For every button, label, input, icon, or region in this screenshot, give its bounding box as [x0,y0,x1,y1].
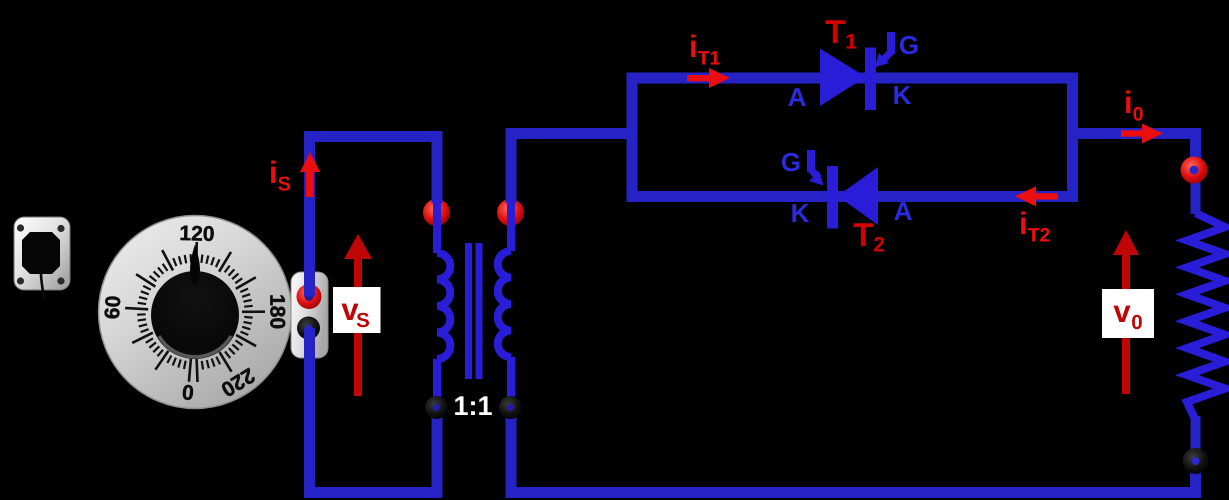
terminal block [291,272,328,358]
wire: secondary bottom to load bottom [511,404,1196,493]
svg-text:60: 60 [101,295,125,320]
node: source black terminal [297,317,320,340]
wire: thyristor block right vertical [1067,78,1078,197]
svg-text:S: S [356,309,370,332]
node: load red terminal [1181,157,1208,184]
current arrow i_S [300,152,320,197]
dial knob [151,271,239,359]
wall outlet [14,217,70,299]
variac dial body [99,216,292,409]
node: load black terminal [1183,448,1209,474]
transformer secondary winding [498,200,511,410]
label box v_S [333,287,381,333]
wire: load bottom connection [1191,416,1201,462]
transformer primary winding [437,200,450,410]
svg-text:180: 180 [265,294,288,329]
node: transformer primary bottom terminal [425,396,448,419]
svg-text:120: 120 [179,222,215,246]
node: source red terminal [297,284,322,309]
svg-text:v: v [1113,294,1131,329]
svg-text:1:1: 1:1 [453,391,492,421]
wire: load top connection [1191,170,1201,214]
svg-text:0: 0 [181,380,195,404]
thyristor T1 [820,32,891,110]
wire: thyristor block left vertical [627,78,638,197]
thyristor T2 [809,150,878,229]
dial pointer [190,245,200,287]
svg-text:A: A [788,82,807,112]
wire: output stub to load [1073,134,1196,173]
dial scale numbers [101,222,289,404]
dial tick marks [125,242,265,382]
svg-text:0: 0 [1131,311,1142,334]
wire: thyristor top branch [627,73,1079,84]
svg-text:K: K [791,198,810,228]
wire: primary loop bottom [310,328,438,493]
node: transformer primary top terminal [423,199,450,226]
voltage arrow v_S [344,234,372,396]
current arrow i_0 [1121,124,1163,144]
resistor R load [1187,213,1225,420]
wire: secondary top to thyristor block [511,134,632,204]
node: transformer secondary bottom terminal [499,396,522,419]
node: transformer secondary top terminal [497,199,524,226]
svg-text:K: K [893,80,912,110]
transformer core [465,243,483,379]
voltage arrow v_0 [1113,230,1139,394]
svg-text:G: G [899,30,919,60]
label box v_0 [1102,289,1154,338]
wire: primary loop top (source to transformer primary) [310,137,438,297]
svg-text:A: A [894,196,913,226]
current arrow i_T1 [687,68,730,88]
wire: thyristor bottom branch [627,191,1079,202]
current arrow i_T2 [1015,186,1058,206]
svg-text:G: G [781,147,801,177]
